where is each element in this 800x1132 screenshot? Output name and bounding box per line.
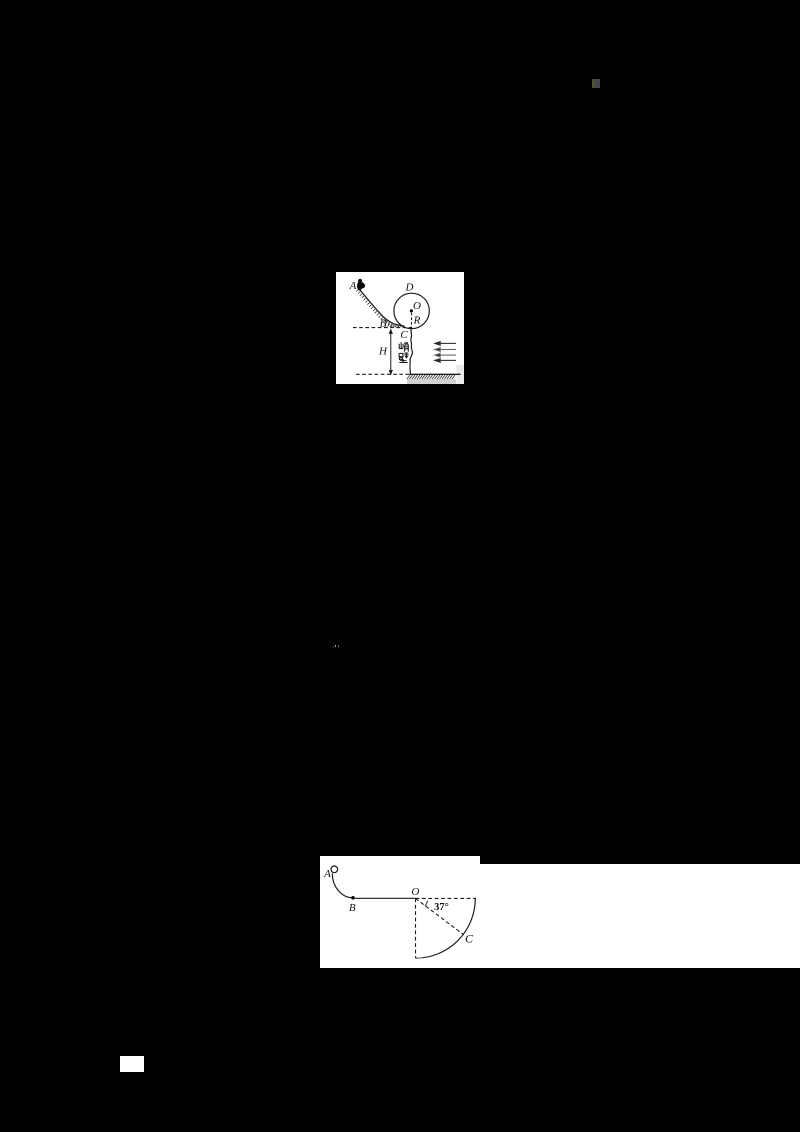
dashed horizontal radius [416,897,477,899]
svg-text:R: R [413,315,421,327]
dashed radius O to C [411,313,413,328]
svg-text:H: H [378,346,388,358]
wedge hatching near B [385,321,402,328]
svg-text:B: B [349,902,356,914]
svg-text:C: C [400,329,408,341]
svg-text:D: D [405,282,414,294]
wind arrow 1 [435,342,456,346]
wind arrow 3 [435,353,456,357]
solid ground line [410,373,461,375]
quarter arc [416,898,476,958]
wind arrow 2 [435,348,456,352]
small white rectangle bottom-left [120,1056,144,1072]
cliff wavy line [410,328,413,374]
grey shade below ground [407,379,456,384]
circle track [394,293,429,328]
figure 2 drawing [320,856,488,968]
dot B [351,896,355,900]
svg-text:O: O [413,300,421,312]
cliff char 峭 [399,342,408,352]
light grey right column [457,365,465,384]
wind arrow 4 [435,359,456,363]
figure 2 white band right part [480,864,800,968]
ball at A [331,866,338,873]
figure 1 white panel [336,272,464,384]
dashed line at B level [353,327,412,329]
H dimension arrow [389,330,392,374]
line B to O [353,897,416,899]
svg-text:37°: 37° [434,902,449,913]
curved ramp A to B [332,873,353,897]
figure 2 white panel left part (with top strip) [320,856,480,968]
svg-text:A: A [349,280,357,292]
tiny faint specks mid page [333,646,334,648]
svg-text:C: C [465,932,474,946]
slope hatching [356,290,401,328]
svg-text:O: O [411,886,419,898]
center dot O [410,309,413,312]
dashed ground level line [356,373,410,375]
person silhouette at A [357,279,365,291]
angle mark arc [425,901,428,906]
figure 1 drawing [336,272,464,384]
small grey square icon top-right [592,79,600,88]
slope curve A to tangent point [359,289,405,327]
dashed 37-degree radius to C [416,898,464,934]
svg-text:A: A [323,868,331,880]
dashed vertical radius [415,898,417,957]
cliff char 壁 [399,353,409,363]
ground hatching [407,375,455,379]
olive mark inside grey square [592,81,594,87]
arc bottom end nub [417,957,424,959]
